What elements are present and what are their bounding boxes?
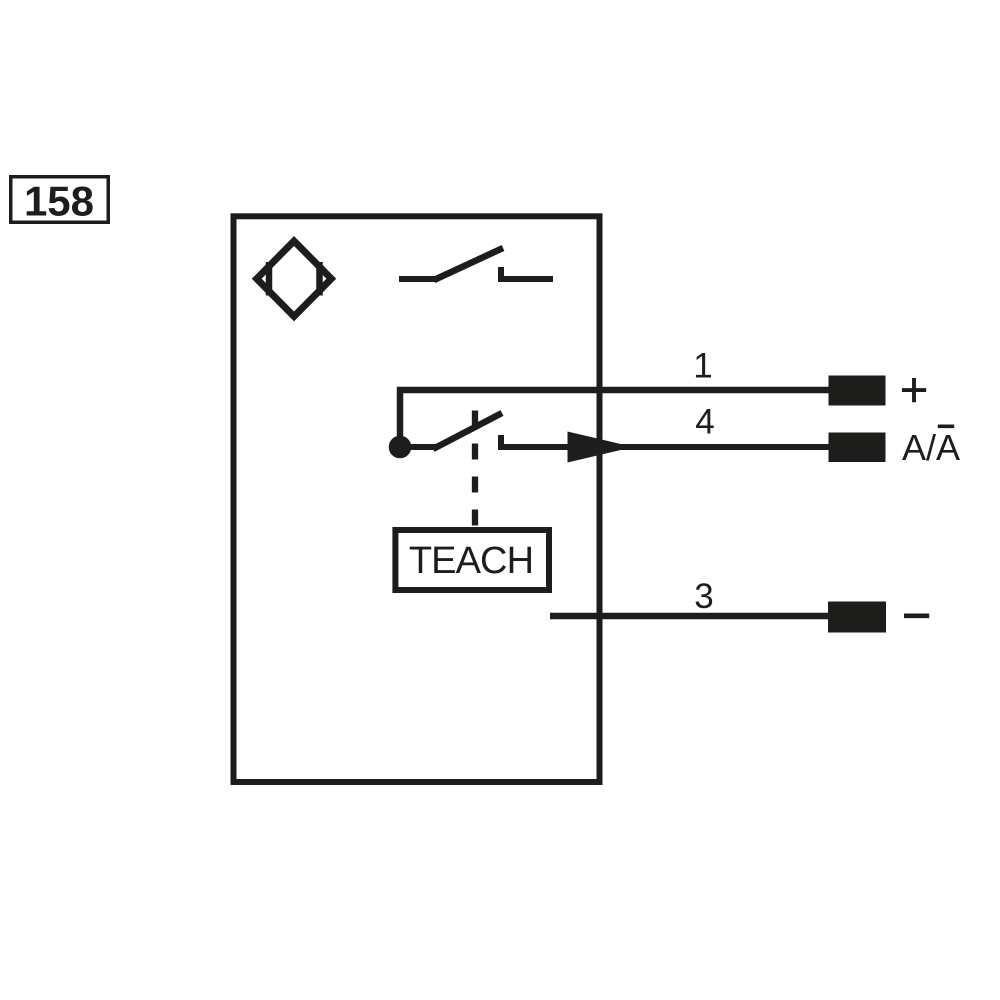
svg-text:158: 158 xyxy=(24,177,94,224)
output switch contact (top) xyxy=(399,248,553,282)
node junction dot xyxy=(389,436,412,459)
wire: node to pin 1 rail xyxy=(400,390,829,447)
svg-text:4: 4 xyxy=(695,403,714,442)
wire 4 (output) xyxy=(498,444,829,450)
label + xyxy=(902,378,926,402)
terminal 1 xyxy=(829,376,886,406)
arrowhead on wire 4 xyxy=(568,432,634,463)
svg-text:TEACH: TEACH xyxy=(409,540,533,582)
sensor housing outline xyxy=(234,216,600,782)
dashed link to TEACH box xyxy=(472,411,478,528)
figure number label 158 xyxy=(11,177,109,225)
wire 3 (minus rail) xyxy=(550,613,829,619)
svg-text:A/A: A/A xyxy=(902,427,960,468)
terminal 4 xyxy=(829,433,886,463)
svg-text:1: 1 xyxy=(693,347,712,386)
terminal 3 xyxy=(828,602,886,633)
proximity sensor symbol (diamond) xyxy=(257,241,332,316)
label A/A-bar xyxy=(902,426,960,468)
label minus xyxy=(904,613,929,618)
TEACH function box xyxy=(395,530,549,590)
svg-text:3: 3 xyxy=(694,577,713,616)
teach switch contact (middle) xyxy=(405,413,502,450)
